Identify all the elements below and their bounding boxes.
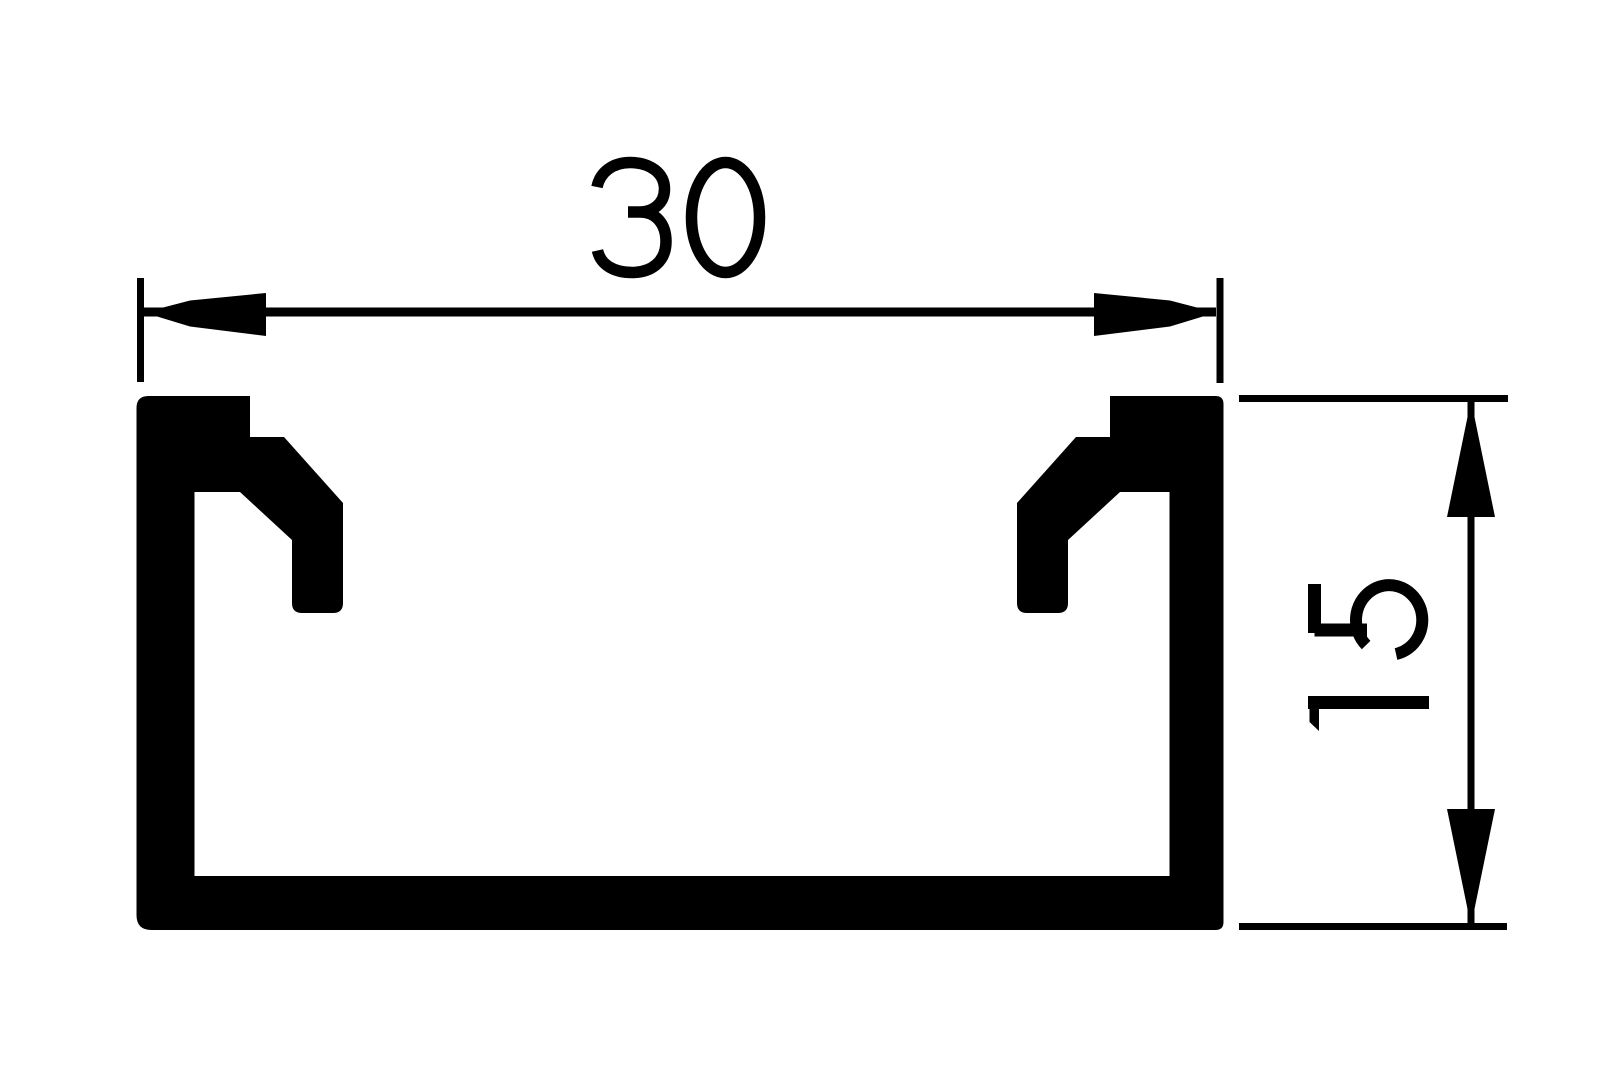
extension line right (dim 30)	[1217, 278, 1224, 383]
dimension text 15 (rotated) : digit 1	[1308, 703, 1429, 732]
extension line bottom (dim 15)	[1239, 923, 1507, 930]
arrowhead down (dim 15)	[1447, 809, 1495, 926]
dimension line 30	[144, 308, 1216, 317]
extension line left (dim 30)	[137, 278, 144, 382]
dimension text 15 (rotated) : digit 5	[1315, 584, 1423, 654]
profile cross-section (30x15 channel with clip hooks)	[137, 396, 1224, 930]
arrowhead up (dim 15)	[1447, 400, 1495, 517]
extension line top (dim 15)	[1239, 395, 1508, 402]
dimension line 15	[1468, 399, 1475, 926]
arrowhead right (dim 30)	[1094, 293, 1216, 336]
dimension text 30	[597, 163, 760, 273]
arrowhead left (dim 30)	[144, 293, 266, 336]
